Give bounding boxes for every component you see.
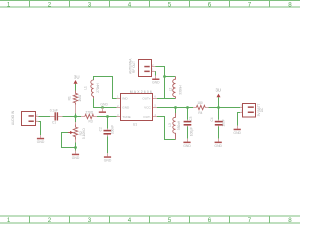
- svg-text:7: 7: [248, 217, 252, 224]
- svg-text:IND: IND: [122, 96, 128, 100]
- svg-text:180: 180: [197, 101, 203, 105]
- svg-text:270nH: 270nH: [96, 83, 100, 93]
- svg-text:AUDIO IN: AUDIO IN: [11, 110, 15, 125]
- svg-text:4: 4: [128, 217, 132, 224]
- svg-text:MAX2606: MAX2606: [130, 90, 152, 94]
- svg-text:8: 8: [288, 217, 292, 224]
- svg-text:1: 1: [7, 217, 11, 224]
- svg-text:R3: R3: [89, 119, 93, 123]
- svg-text:C4: C4: [210, 117, 214, 121]
- svg-text:10uF: 10uF: [222, 119, 226, 126]
- svg-text:3U: 3U: [74, 74, 80, 79]
- svg-text:C1: C1: [52, 120, 56, 124]
- svg-text:VCC: VCC: [144, 106, 151, 110]
- svg-text:2: 2: [48, 217, 52, 224]
- svg-text:5-10KΩ: 5-10KΩ: [82, 128, 86, 140]
- svg-text:330nH: 330nH: [179, 85, 183, 95]
- svg-text:5: 5: [168, 217, 172, 224]
- svg-text:RF OUT: RF OUT: [132, 61, 136, 73]
- svg-text:R4: R4: [198, 111, 202, 115]
- svg-text:TUNE: TUNE: [122, 115, 130, 119]
- svg-text:6: 6: [208, 2, 212, 9]
- svg-text:1: 1: [117, 95, 119, 99]
- svg-text:U1: U1: [133, 122, 137, 126]
- svg-text:L1: L1: [83, 86, 87, 90]
- svg-text:1MΩ: 1MΩ: [78, 94, 82, 101]
- svg-text:C3: C3: [189, 116, 193, 120]
- svg-text:1: 1: [7, 2, 11, 9]
- svg-text:GND: GND: [122, 106, 130, 110]
- svg-text:L3: L3: [168, 123, 172, 127]
- svg-text:2: 2: [48, 2, 52, 9]
- svg-text:100pF: 100pF: [190, 127, 194, 136]
- svg-text:R1: R1: [67, 96, 71, 100]
- svg-text:6: 6: [208, 217, 212, 224]
- svg-text:3U: 3U: [215, 87, 221, 92]
- svg-text:OUT+: OUT+: [142, 96, 151, 100]
- svg-text:GND: GND: [100, 103, 108, 107]
- svg-text:270Ω: 270Ω: [85, 111, 93, 115]
- svg-text:330nH: 330nH: [177, 120, 181, 130]
- svg-text:3: 3: [88, 2, 92, 9]
- svg-text:OUT-: OUT-: [143, 115, 150, 119]
- svg-text:5: 5: [168, 2, 172, 9]
- svg-text:8: 8: [288, 2, 292, 9]
- svg-text:DC: DC: [260, 107, 264, 112]
- svg-text:6: 6: [154, 95, 156, 99]
- svg-text:1: 1: [152, 68, 154, 72]
- svg-text:4: 4: [128, 2, 132, 9]
- svg-text:0.1uF: 0.1uF: [50, 108, 58, 112]
- svg-text:L2: L2: [168, 88, 172, 92]
- svg-text:3: 3: [88, 217, 92, 224]
- svg-text:7: 7: [248, 2, 252, 9]
- svg-text:C2: C2: [99, 127, 103, 131]
- svg-text:100nF: 100nF: [110, 125, 114, 134]
